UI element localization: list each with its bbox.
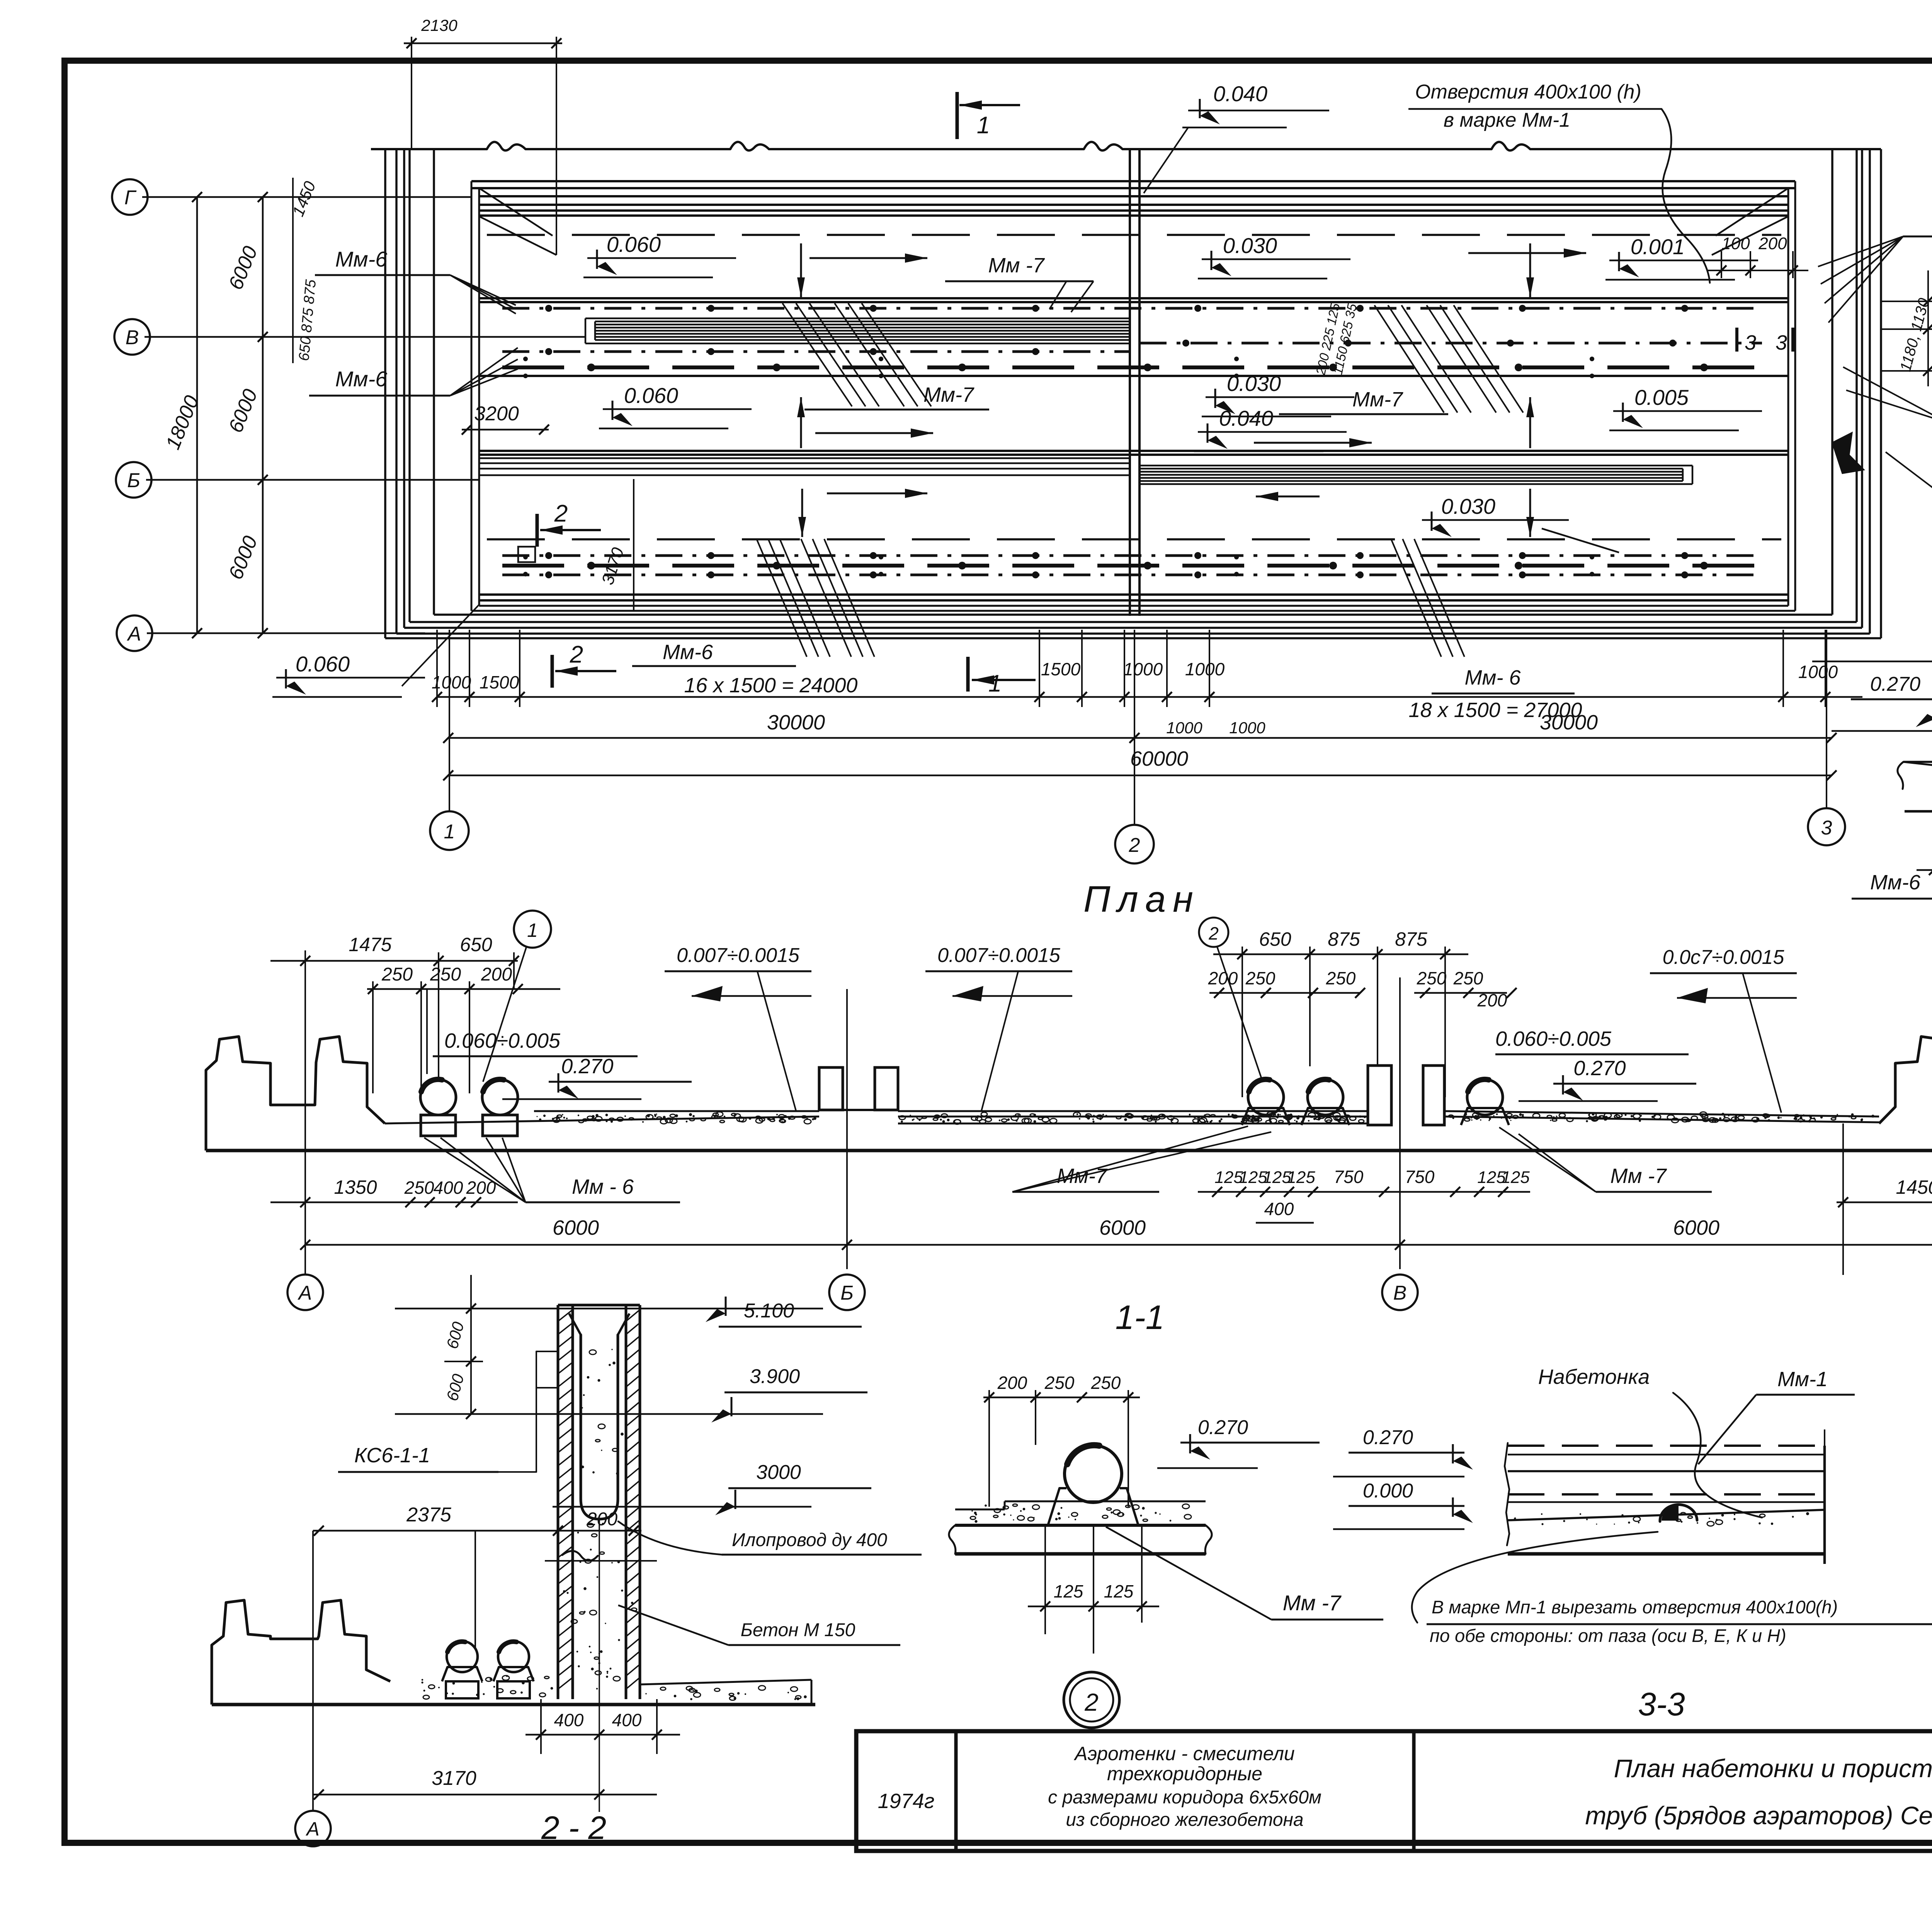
plan: axis circle Г	[112, 179, 148, 215]
svg-text:В: В	[126, 326, 139, 349]
plan: groove (paz) along axis В — left half	[585, 318, 1130, 320]
section 2-2: U-tube of sludge riser	[581, 1335, 618, 1519]
plan: left outer wall bundle	[384, 149, 386, 638]
plan: section marks 3-3 inside right half	[1735, 328, 1738, 352]
svg-text:750: 750	[1334, 1167, 1364, 1187]
svg-text:250: 250	[1091, 1373, 1121, 1393]
section 2-2: axis А line and circle	[312, 1531, 314, 1811]
svg-text:0.0с7÷0.0015: 0.0с7÷0.0015	[1663, 946, 1785, 969]
svg-text:труб (5рядов аэраторов) Сечен: труб (5рядов аэраторов) Сечения	[1585, 1801, 1932, 1830]
plan: axis circle А	[117, 615, 152, 651]
section 1-1: callout circle 1 to pipes	[514, 911, 551, 948]
section 1-1: base slab line	[206, 1149, 1932, 1152]
section 3-3: lower dashed line	[1508, 1493, 1825, 1496]
svg-text:2: 2	[1208, 923, 1219, 943]
plan: axis circle В	[114, 319, 150, 355]
plan: axis line В	[145, 336, 585, 338]
section 1-1: axis drops	[846, 989, 848, 1269]
svg-text:30000: 30000	[1540, 711, 1598, 734]
plan: inner wall rectangle lines	[471, 181, 473, 611]
plan: wall band at axis Г	[471, 180, 1795, 182]
plan: hatch corner mark at right wall	[1832, 432, 1865, 474]
detail 2: concrete band	[955, 1509, 1005, 1511]
section 2-2: column concrete stipple	[583, 1611, 585, 1613]
section 3-3: bottom slab line	[1508, 1552, 1825, 1556]
plan: aerator dash-dot rows below paz	[502, 350, 1130, 353]
svg-text:0.270: 0.270	[1870, 673, 1920, 695]
plan: small rotated dims 1450 650 875 875 at left	[292, 178, 294, 363]
svg-text:Аэротенки - смесители: Аэротенки - смесители	[1073, 1743, 1295, 1764]
svg-text:по обе стороны: от паза (оси: по обе стороны: от паза (оси В, Е, К и Н…	[1430, 1625, 1786, 1646]
plan: top break line of tank	[371, 148, 487, 150]
svg-text:125: 125	[1054, 1581, 1083, 1601]
svg-text:2 - 2: 2 - 2	[541, 1810, 606, 1846]
plan: axis line Г	[142, 196, 471, 198]
section 1-1: axis circle А	[287, 1275, 323, 1310]
svg-text:2130: 2130	[421, 16, 457, 34]
plan: Мм-7 diagonal strap group left half	[782, 303, 852, 406]
svg-text:1000: 1000	[1229, 719, 1265, 737]
svg-text:Мм-6: Мм-6	[663, 641, 713, 664]
detail 1: dim row 250 250 200	[1812, 661, 1932, 663]
plan: bottom outer wall bundle	[385, 637, 1881, 639]
svg-text:125: 125	[1287, 1168, 1315, 1187]
plan: section mark 1 bottom	[966, 657, 970, 692]
section 1-1: dim row 250 250 200 left	[367, 988, 560, 990]
svg-text:Мм -7: Мм -7	[1610, 1164, 1667, 1188]
svg-text:1500: 1500	[1041, 659, 1081, 679]
svg-text:1000: 1000	[1185, 659, 1225, 679]
section 3-3: top dashed pair	[1508, 1445, 1825, 1447]
svg-text:400: 400	[554, 1710, 584, 1730]
svg-text:0.005: 0.005	[1634, 385, 1689, 410]
svg-text:0.060: 0.060	[624, 383, 678, 408]
svg-text:3170: 3170	[432, 1767, 476, 1790]
plan: central dividing wall (axis 2)	[1129, 149, 1131, 616]
svg-text:6000: 6000	[1673, 1216, 1719, 1239]
section 1-1: callout circle 2 to pipes	[1199, 918, 1228, 947]
svg-text:1: 1	[444, 821, 455, 843]
svg-text:0.000: 0.000	[1363, 1480, 1413, 1502]
plan: aerator rows near axis А	[502, 554, 1762, 557]
svg-text:200: 200	[1758, 234, 1787, 253]
svg-text:Б: Б	[127, 469, 140, 492]
plan: axis circle Б	[116, 462, 151, 498]
svg-text:1: 1	[988, 670, 1002, 697]
svg-text:2: 2	[570, 641, 583, 668]
svg-text:200: 200	[1208, 968, 1238, 988]
plan: axis column circle 2	[1134, 630, 1135, 825]
svg-text:2: 2	[1084, 1688, 1099, 1716]
svg-text:3.900: 3.900	[750, 1365, 800, 1388]
svg-text:200: 200	[466, 1178, 496, 1198]
svg-text:250: 250	[404, 1178, 434, 1198]
section 1-1: wall bumps at axis В	[1368, 1066, 1391, 1125]
svg-text:0.030: 0.030	[1227, 371, 1281, 396]
svg-text:КС6-1-1: КС6-1-1	[354, 1444, 430, 1467]
detail 2: detail bubble 2	[1064, 1672, 1119, 1728]
plan: section mark 1 top	[956, 92, 959, 139]
section 1-1: axis circle Б	[829, 1275, 865, 1310]
plan: flow arrows corridor В-Б	[815, 432, 933, 434]
svg-text:1350: 1350	[334, 1176, 377, 1198]
svg-text:Мм - 6: Мм - 6	[572, 1175, 634, 1198]
svg-text:0.007÷0.0015: 0.007÷0.0015	[937, 944, 1061, 967]
svg-text:250: 250	[381, 964, 413, 985]
section 1-1: pipe pair near axis В (Мм-7)	[1248, 1079, 1284, 1115]
section 3-3: right edge vertical	[1823, 1446, 1826, 1564]
svg-text:1000: 1000	[1166, 719, 1202, 737]
section 2-2: level line 3.900	[395, 1413, 823, 1415]
svg-text:1500: 1500	[480, 672, 519, 692]
section 2-2: floor base line	[212, 1703, 815, 1706]
section 1-1: pipe pair at axis А (Мм-6)	[420, 1079, 456, 1115]
svg-text:Мм-6: Мм-6	[335, 367, 388, 391]
svg-text:750: 750	[1405, 1167, 1435, 1187]
svg-text:650: 650	[1259, 928, 1291, 950]
svg-text:1000: 1000	[432, 672, 471, 692]
section 1-1: left castellated wall profile	[206, 1037, 385, 1151]
plan: flow arrows corridor Б-А	[827, 493, 927, 495]
svg-text:0.060: 0.060	[607, 232, 661, 257]
svg-text:0.060÷0.005: 0.060÷0.005	[1495, 1027, 1612, 1050]
section 2-2: dim 400 400	[526, 1734, 680, 1736]
svg-text:А: А	[305, 1818, 319, 1840]
svg-text:200: 200	[997, 1373, 1027, 1393]
title block: column dividers	[954, 1731, 958, 1851]
plan: dim row 2 (30000 / 30000)	[448, 737, 1832, 739]
svg-text:400: 400	[1264, 1199, 1294, 1219]
svg-text:650: 650	[460, 934, 492, 955]
svg-text:1: 1	[977, 112, 990, 139]
section 2-2: break marks mid column	[562, 1551, 598, 1561]
section 2-2: sludge pipe column walls hatched	[557, 1305, 560, 1699]
svg-text:250: 250	[430, 964, 461, 985]
section 1-1: axis circle В	[1382, 1275, 1418, 1310]
plan: vertical dim line 6000 column	[262, 197, 264, 633]
svg-text:250: 250	[1326, 968, 1356, 988]
plan: dim 100 200 top right	[1721, 251, 1722, 278]
svg-text:0.270: 0.270	[1363, 1426, 1413, 1449]
svg-text:Набетонка: Набетонка	[1538, 1365, 1650, 1389]
plan: right outer wall bundle	[1880, 149, 1882, 638]
plan: Мм-7 diagonal strap group right half	[1374, 305, 1444, 413]
svg-text:400: 400	[434, 1178, 463, 1198]
svg-text:250: 250	[1453, 968, 1483, 988]
plan: dim row 3 (60000)	[448, 775, 1832, 777]
plan: groove (paz) along axis Б — right half	[1139, 465, 1692, 467]
section 1-1: bottom dims 1350 250 400 200	[270, 1202, 518, 1203]
svg-text:Бетон М 150: Бетон М 150	[741, 1620, 855, 1640]
svg-text:125: 125	[1501, 1168, 1530, 1187]
section 2-2: dim 600 600 column	[470, 1275, 472, 1414]
section 1-1: dim row 6000 6000 6000	[305, 1244, 1932, 1246]
section 2-2: level line 5.100	[395, 1308, 823, 1310]
detail 1: dim 125 125	[1917, 869, 1932, 871]
plan: right-side extension lines and dims 1180 1130	[1881, 301, 1932, 302]
section 1-1: наб. concrete band with stipple left part	[385, 1117, 819, 1123]
plan: dim row 1 (1000 1500 / 16x1500 / 1500 1000 1000 / 18x1500 / 1000)	[437, 696, 1862, 698]
section 1-1: dims row 650 875 875 mid	[1213, 953, 1468, 955]
svg-text:1475: 1475	[349, 934, 391, 955]
detail 2: dim 125 125	[1028, 1606, 1159, 1608]
svg-text:400: 400	[612, 1710, 642, 1730]
svg-text:Мм -7: Мм -7	[988, 254, 1045, 277]
detail 2: lower slab line	[955, 1552, 1206, 1556]
plan: section mark 2 bottom	[551, 655, 554, 688]
plan: extension verticals to dim rows	[436, 630, 438, 707]
section 3-3: left break edge	[1505, 1443, 1509, 1545]
svg-text:1450: 1450	[1896, 1176, 1932, 1198]
section 1-1: concrete band middle	[898, 1116, 1368, 1118]
svg-text:0.040: 0.040	[1219, 406, 1273, 430]
svg-text:А: А	[127, 623, 141, 645]
section 2-2: level line 3.000	[553, 1506, 811, 1508]
section 3-3: набетонка band with stipple	[1508, 1510, 1825, 1520]
plan: corner chamfer diagonals at axis Г wall	[479, 216, 556, 255]
svg-text:0.060: 0.060	[296, 652, 350, 676]
svg-text:В: В	[1393, 1282, 1407, 1304]
svg-text:0.001: 0.001	[1631, 235, 1685, 259]
svg-text:6000: 6000	[1099, 1216, 1146, 1239]
section 1-1: right castellated wall profile	[1879, 1037, 1932, 1151]
svg-text:План: План	[1083, 879, 1200, 920]
svg-text:1-1: 1-1	[1115, 1298, 1164, 1336]
svg-text:250: 250	[1245, 968, 1276, 988]
svg-text:в марке Мм-1: в марке Мм-1	[1444, 109, 1570, 131]
svg-text:1000: 1000	[1798, 662, 1838, 682]
svg-text:250: 250	[1044, 1373, 1075, 1393]
plan: small square marker near section 2	[518, 547, 535, 562]
svg-text:100: 100	[1721, 234, 1750, 253]
plan: axis line А	[147, 632, 425, 634]
svg-text:250: 250	[1417, 968, 1447, 988]
svg-text:5.100: 5.100	[744, 1300, 794, 1322]
plan: axis line Б	[146, 479, 479, 481]
svg-text:875: 875	[1328, 928, 1360, 950]
plan: wall band at axis В with aerator rows	[479, 297, 1788, 299]
section 3-3: mid solid line	[1508, 1470, 1825, 1472]
svg-text:3000: 3000	[756, 1461, 801, 1484]
plan: dashed aerator line corridor Б-А	[487, 538, 1781, 540]
plan: Мм-6 diagonal straps to bottom labels	[757, 539, 807, 657]
svg-text:Отверстия 400х100 (h): Отверстия 400х100 (h)	[1415, 81, 1641, 103]
svg-text:Мм-6: Мм-6	[335, 247, 388, 271]
svg-text:0.270: 0.270	[1573, 1057, 1626, 1080]
svg-text:Мм-6: Мм-6	[1870, 871, 1921, 894]
detail 2: pipe circle	[1065, 1445, 1122, 1502]
svg-text:2: 2	[554, 500, 568, 527]
svg-text:0.040: 0.040	[1213, 82, 1267, 106]
svg-text:3: 3	[1745, 331, 1756, 354]
svg-text:Б: Б	[840, 1282, 854, 1304]
svg-text:2375: 2375	[406, 1504, 452, 1526]
svg-text:2: 2	[1129, 834, 1140, 857]
plan: flow arrows corridor Г-В	[810, 257, 927, 259]
section 1-1: wall bumps at axis Б	[819, 1067, 843, 1110]
svg-text:Г: Г	[124, 187, 137, 209]
title block: outer frame	[856, 1731, 1932, 1851]
svg-text:с размерами коридора 6х5х60м: с размерами коридора 6х5х60м	[1048, 1787, 1321, 1808]
svg-text:6000: 6000	[553, 1216, 599, 1239]
section 1-1: dim 1450 right	[1837, 1202, 1932, 1203]
svg-text:1974г: 1974г	[878, 1790, 935, 1813]
svg-text:Мм-1: Мм-1	[1777, 1368, 1828, 1391]
section 2-2: dim 2375 200	[313, 1530, 641, 1532]
svg-text:трехкоридорные: трехкоридорные	[1107, 1763, 1262, 1785]
svg-text:3: 3	[1776, 331, 1787, 354]
section 2-2: dim 3170	[313, 1794, 657, 1796]
detail 1: floor slope lines	[1903, 761, 1932, 763]
svg-text:875: 875	[1395, 928, 1427, 950]
svg-text:Мм -7: Мм -7	[1283, 1591, 1342, 1615]
plan: vertical arrows corridor Г-В	[800, 243, 802, 297]
plan: section mark 2 mid	[536, 514, 539, 547]
plan: dashed aerator line in corridor Г-В	[487, 234, 1781, 236]
svg-text:0.060÷0.005: 0.060÷0.005	[444, 1029, 561, 1052]
svg-text:1: 1	[527, 919, 538, 941]
svg-text:200: 200	[586, 1509, 617, 1530]
svg-text:из сборного железобетона: из сборного железобетона	[1066, 1810, 1303, 1830]
section 2-2: pipes on floor	[447, 1641, 478, 1672]
section 3-3: pipe hump on slab	[1660, 1504, 1697, 1521]
detail 2: saddle under pipe	[1048, 1488, 1066, 1525]
svg-text:0.030: 0.030	[1223, 233, 1277, 258]
svg-text:200: 200	[481, 964, 512, 985]
svg-text:Мм- 6: Мм- 6	[1464, 666, 1521, 689]
svg-text:3200: 3200	[474, 403, 519, 425]
svg-text:0.030: 0.030	[1441, 494, 1495, 518]
detail 2: dim row 200 250 250	[983, 1397, 1140, 1399]
svg-text:60000: 60000	[1130, 747, 1188, 770]
detail 1: bottom line	[1905, 810, 1932, 813]
section 2-2: right floor band	[640, 1680, 811, 1684]
svg-text:0.270: 0.270	[561, 1055, 613, 1078]
svg-text:Мм-7: Мм-7	[923, 383, 975, 406]
svg-text:125: 125	[1104, 1581, 1134, 1601]
svg-text:16 х 1500 = 24000: 16 х 1500 = 24000	[684, 674, 858, 697]
svg-text:3-3: 3-3	[1638, 1686, 1685, 1722]
plan: axis column circle 3	[1826, 630, 1827, 808]
svg-text:В марке Мп-1 вырезать отверст: В марке Мп-1 вырезать отверстия 400х100(…	[1432, 1597, 1838, 1617]
plan: wall band at axis Б	[479, 450, 1788, 452]
svg-text:1000: 1000	[1123, 659, 1163, 679]
svg-text:30000: 30000	[767, 711, 825, 734]
svg-text:0.270: 0.270	[1198, 1416, 1248, 1439]
svg-text:А: А	[298, 1282, 312, 1304]
section 1-1: dim row 1475 650	[270, 960, 518, 962]
section 2-2: left castellated wall	[212, 1600, 390, 1705]
svg-text:0.007÷0.0015: 0.007÷0.0015	[677, 944, 800, 967]
svg-text:Илопровод ду 400: Илопровод ду 400	[732, 1530, 887, 1550]
svg-text:Мм-7: Мм-7	[1352, 388, 1403, 411]
section 1-1: bottom dims 125x4 750 750 125 125	[1198, 1191, 1530, 1193]
plan: axis column circle 1	[449, 630, 450, 811]
svg-text:План набетонки и пористых: План набетонки и пористых	[1614, 1754, 1932, 1783]
section 1-1: concrete band right part	[1444, 1117, 1879, 1122]
plan: vertical dim line 18000	[196, 197, 198, 633]
svg-text:3: 3	[1821, 817, 1832, 839]
